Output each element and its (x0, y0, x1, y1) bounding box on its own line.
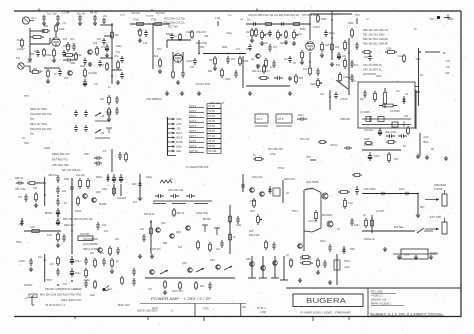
resistor R2 (21, 38, 24, 48)
resistor Rq1 (106, 62, 109, 71)
svg-text:1n5: 1n5 (143, 42, 148, 45)
opto U1 wire row1 (362, 118, 411, 120)
net row 5 val (209, 126, 216, 128)
label b10 (236, 48, 241, 51)
resistor R73 (253, 158, 264, 161)
ground h1 (416, 154, 420, 159)
ground p1 (397, 255, 401, 260)
svg-text:1M: 1M (246, 31, 249, 34)
harness pin 1 label (176, 118, 182, 121)
label R5 (63, 37, 68, 41)
inductor L1 zigzag (160, 180, 172, 183)
wire k stub (198, 40, 200, 54)
svg-text:APPR: 4.5.2005 1: APPR: 4.5.2005 1 (371, 303, 392, 306)
svg-text:TP7: TP7 (430, 18, 435, 21)
svg-text:2k7: 2k7 (100, 64, 105, 67)
resistor Rc1 (285, 30, 288, 39)
label Q25 (161, 222, 166, 225)
label a mid1 (44, 25, 49, 28)
net row 6 underline (189, 132, 204, 134)
wire q1 stub2 (112, 69, 122, 71)
diode D24 (268, 186, 272, 194)
svg-text:1k2: 1k2 (178, 246, 183, 249)
label C2 100n (53, 13, 58, 16)
node j2 (229, 221, 231, 223)
transistor Q32 (150, 270, 155, 275)
wire j rail (139, 174, 141, 196)
resistor Rc0 (255, 28, 258, 37)
label top a1 (62, 12, 71, 15)
svg-text:47n: 47n (18, 196, 23, 199)
capacitor C6 (63, 58, 75, 62)
wire d2 (415, 91, 420, 93)
label q1h (97, 38, 102, 41)
capacitor C29 (274, 76, 283, 80)
net row 6 box (207, 129, 221, 134)
label c5 (256, 64, 261, 67)
svg-text:R101a 1k: R101a 1k (144, 213, 155, 216)
label d1 (414, 28, 417, 31)
capacitor C103 (56, 268, 60, 276)
g mid extra3 (306, 156, 311, 159)
ground n1 (138, 254, 142, 259)
switch box SB2 (276, 114, 292, 123)
ground f1 (165, 91, 169, 96)
capacitor C51 (84, 110, 88, 117)
label i14 (115, 238, 120, 241)
bottom tick 4 (74, 316, 76, 319)
tb sheet line (370, 312, 444, 316)
svg-text:R96a 4k7: R96a 4k7 (64, 224, 75, 227)
label j5 (140, 228, 145, 231)
wire q1 v (242, 56, 244, 88)
svg-text:47k: 47k (114, 54, 119, 58)
label heater (364, 143, 374, 147)
svg-text:820k: 820k (222, 46, 228, 49)
resistor R44 (339, 72, 342, 83)
capacitor C26 (350, 60, 354, 68)
label i9 (33, 187, 38, 190)
label i4 (64, 202, 67, 205)
label d6 (376, 75, 382, 78)
svg-text:1M 22n 470k: 1M 22n 470k (196, 83, 211, 86)
svg-text:FSW R61 10k C52: FSW R61 10k C52 (30, 127, 52, 131)
resistor R20 (159, 58, 162, 68)
svg-text:LED3: LED3 (44, 147, 51, 150)
resistor R119 (57, 256, 60, 266)
resistor R92 (79, 178, 82, 189)
label m4 (75, 260, 81, 263)
svg-text:R16 100k C14 22n: R16 100k C14 22n (164, 22, 185, 25)
svg-text:2k2: 2k2 (90, 252, 95, 255)
label i7 (99, 203, 107, 206)
svg-text:10k 22k: 10k 22k (76, 174, 85, 177)
svg-text:100k: 100k (186, 31, 192, 34)
svg-text:100R: 100R (364, 138, 370, 141)
wire q1 stub1 (104, 35, 112, 37)
bottom tick 5 (348, 316, 350, 320)
svg-text:K1: K1 (405, 92, 409, 96)
label B+ (443, 52, 447, 55)
resistor Rh2 (364, 142, 373, 145)
capacitor C85 (56, 208, 60, 216)
ground at C3 (78, 21, 82, 26)
jack J2 speaker (442, 190, 447, 206)
wire v2 grid (172, 52, 174, 70)
svg-text:TP AT 4: TP AT 4 (257, 307, 266, 310)
svg-text:C55 100n C56: C55 100n C56 (52, 163, 69, 167)
svg-text:100n 100n: 100n 100n (385, 131, 397, 134)
resistor R4 plate (55, 24, 58, 33)
svg-text:100u: 100u (75, 272, 81, 275)
label R21 (209, 58, 213, 62)
ground at C2 (56, 21, 60, 26)
svg-text:470u: 470u (374, 155, 380, 158)
wire o extra1 (283, 256, 285, 280)
capacitor C4 (93, 15, 97, 21)
label a8 (108, 86, 111, 89)
capacitor C22 (268, 44, 272, 52)
svg-text:C16a: C16a (226, 32, 232, 35)
title block divider (367, 288, 369, 317)
jack J3 ext speaker (442, 218, 447, 234)
label i12 (16, 241, 22, 244)
svg-text:R9 1M: R9 1M (90, 12, 97, 15)
svg-text:P7 4R: P7 4R (209, 136, 216, 138)
wire stage2 (44, 67, 60, 69)
label j4 (196, 212, 209, 215)
label h5 (364, 138, 370, 141)
label Q34 (210, 259, 215, 262)
svg-text:4k7: 4k7 (284, 58, 289, 61)
label c2 (264, 42, 269, 45)
label b6 (186, 31, 192, 34)
svg-text:C20 22n R30 470k C21 22n R3: C20 22n R30 470k C21 22n R31 470k VR2 1M (248, 14, 299, 17)
svg-text:R105 47k: R105 47k (150, 248, 161, 251)
net row 5 name (189, 125, 197, 128)
g mid text (268, 147, 283, 151)
net row 10 val (209, 151, 217, 153)
net row 7 val (209, 136, 216, 138)
ground Q1 (88, 62, 92, 67)
svg-text:100n 400V: 100n 400V (364, 188, 376, 191)
label q1c (196, 31, 206, 34)
label TP7 (430, 18, 435, 21)
net row 2 val (209, 111, 216, 113)
capacitor C63 (344, 146, 352, 150)
svg-text:22u: 22u (140, 228, 145, 231)
harness pin 3 label (176, 128, 181, 131)
resistor Ri1 (35, 192, 38, 202)
tiny note (24, 95, 29, 98)
svg-text:100u: 100u (102, 188, 108, 191)
resistor R22 (239, 56, 242, 66)
svg-text:470k: 470k (151, 18, 157, 22)
resistor R3 cathode (53, 48, 56, 58)
label i3 (62, 190, 67, 193)
svg-text:SEND R64 470: SEND R64 470 (52, 152, 70, 156)
svg-text:CN2 RIBBON: CN2 RIBBON (146, 97, 162, 101)
label k8 (252, 176, 263, 179)
label C22 (273, 46, 278, 49)
svg-text:LED1 LED2 PILOT: LED1 LED2 PILOT (61, 299, 82, 302)
svg-text:100n: 100n (298, 114, 304, 117)
label b11 (208, 70, 213, 73)
T bar o1 (248, 277, 256, 279)
capacitor Cc1 (268, 30, 272, 37)
resistor Rn1 (195, 281, 198, 290)
svg-text:1M: 1M (298, 33, 301, 36)
svg-text:TO MAIN PCB CN3: TO MAIN PCB CN3 (186, 165, 209, 169)
wire out main (362, 193, 418, 195)
svg-text:8 OHM: 8 OHM (434, 187, 442, 191)
capacitor Cq2 (36, 50, 40, 57)
svg-text:Q30 TIP35: Q30 TIP35 (306, 180, 319, 184)
svg-text:U1 4N35: U1 4N35 (360, 111, 370, 114)
transistor Q20 (83, 194, 88, 199)
wire gnd drop (29, 44, 31, 57)
svg-text:C91 C92 C93: C91 C92 C93 (168, 189, 184, 192)
label Q26 (176, 231, 181, 234)
svg-text:10u: 10u (398, 55, 403, 58)
label k5 (322, 214, 333, 217)
label top a2 (90, 12, 97, 15)
label q1d (200, 46, 205, 49)
label c13 (352, 80, 357, 83)
cell text 3 (203, 308, 209, 311)
top tick 2 (151, 9, 153, 11)
capacitor C3 (78, 15, 82, 21)
svg-text:MAINS: MAINS (430, 251, 438, 255)
capacitor C100 (378, 192, 388, 196)
svg-text:TIP: TIP (30, 133, 34, 136)
net row 9 name (189, 145, 197, 148)
resistor R21 (214, 56, 217, 66)
m text row3 (61, 299, 82, 302)
svg-text:220: 220 (200, 285, 205, 288)
label q1f (30, 53, 35, 56)
label mains (430, 251, 438, 255)
ground p3 (429, 255, 433, 260)
node mid rail (198, 53, 200, 55)
svg-text:TP6: TP6 (355, 14, 360, 17)
node i2 (57, 195, 59, 197)
label C10 (54, 72, 57, 76)
label b3 (137, 30, 142, 33)
capacitor Cj1 (142, 234, 146, 242)
tb line 2 (371, 295, 383, 298)
label a10 (16, 57, 21, 60)
label q1b (116, 51, 121, 54)
net row 8 name (189, 140, 197, 143)
label h4 (364, 129, 374, 132)
right margin note 2 (446, 66, 450, 69)
ground c2 (284, 40, 288, 45)
resistor R11 (117, 60, 120, 70)
svg-text:+15V: +15V (176, 123, 182, 126)
transistor Q27 (186, 226, 191, 231)
label R36 (335, 46, 340, 49)
svg-text:1k8: 1k8 (249, 230, 254, 233)
label o5 (286, 254, 289, 257)
svg-text:22n: 22n (63, 283, 68, 286)
node pa v2 j (57, 215, 59, 217)
svg-text:R67 22k C58 47n: R67 22k C58 47n (62, 169, 82, 172)
top tiny 5 (333, 14, 339, 16)
ground p2 (414, 255, 418, 260)
capacitor C82 (56, 175, 60, 183)
node i1 (44, 182, 46, 184)
label n2 (148, 288, 153, 291)
ground c4 (330, 62, 334, 67)
svg-text:BUGERA: BUGERA (306, 298, 346, 305)
resistor R91 (27, 182, 37, 185)
label Q20 (96, 191, 101, 194)
svg-text:R60a 4k7 C50a: R60a 4k7 C50a (30, 108, 48, 111)
capacitor C106 (84, 257, 88, 265)
resistor R122 (111, 258, 114, 268)
label K1 (405, 92, 409, 96)
resistor R115 (265, 240, 268, 250)
wire eff v (111, 149, 113, 172)
title cell m4 (243, 306, 247, 309)
resistor R34 (301, 50, 304, 60)
svg-text:Q10 BC547: Q10 BC547 (363, 72, 377, 76)
ground R20 (158, 69, 162, 74)
svg-text:82k: 82k (154, 54, 159, 58)
svg-text:+12V: +12V (423, 136, 429, 139)
svg-text:C63 1n: C63 1n (330, 144, 339, 147)
label l5 (364, 238, 375, 241)
capacitor Ca2 (62, 50, 66, 57)
wire l v1 (371, 215, 373, 233)
ground VR3 (292, 41, 296, 46)
label Q3 (251, 58, 255, 61)
svg-text:OUT 5: OUT 5 (189, 125, 197, 128)
label c4 (246, 48, 251, 51)
label i16 (45, 212, 53, 215)
label VR1 (266, 33, 272, 36)
bottom tick 3 (312, 316, 314, 321)
svg-text:10n: 10n (53, 13, 58, 16)
svg-text:-15V: -15V (176, 128, 181, 131)
node l1 (417, 193, 419, 195)
label C8 (101, 45, 106, 49)
svg-text:P. AMP 6260 / 6262 · PREAMP: P. AMP 6260 / 6262 · PREAMP (301, 311, 351, 315)
label m8 (116, 260, 119, 263)
switch SW2 (95, 130, 104, 134)
wire a1 (49, 38, 51, 44)
label R2 1M (17, 39, 20, 42)
ground c5 (256, 64, 260, 69)
label h3 (404, 115, 409, 118)
node g rail (329, 96, 331, 98)
svg-text:C82 10n: C82 10n (48, 174, 58, 177)
svg-text:R17 1k5: R17 1k5 (168, 25, 178, 29)
svg-text:47u: 47u (101, 45, 106, 49)
tb line 3 (371, 299, 387, 302)
svg-text:B 100: B 100 (306, 188, 313, 191)
tube V1A (52, 38, 61, 47)
T node 1 (202, 225, 208, 232)
wire psu lead 2 (120, 184, 122, 196)
m tiny left (25, 296, 29, 300)
svg-text:10k: 10k (93, 41, 98, 45)
mark d corner (448, 14, 453, 19)
wire grid (30, 43, 50, 45)
label j10 (236, 224, 242, 227)
svg-text:22p: 22p (103, 15, 108, 18)
top centre tick (38, 9, 40, 12)
label i5 (96, 176, 102, 179)
label m11 (63, 283, 68, 286)
label net A (63, 45, 67, 48)
top tick 3 (256, 9, 258, 12)
svg-text:BD911: BD911 (45, 212, 53, 215)
svg-text:P6 4R: P6 4R (209, 131, 216, 133)
label above harness (146, 97, 162, 101)
svg-text:1M: 1M (17, 39, 20, 42)
svg-text:1μn: 1μn (47, 13, 52, 16)
resistor R128 box (300, 262, 313, 265)
switch SW3 impedance (417, 228, 433, 233)
label j right (233, 236, 236, 239)
send return (52, 152, 70, 156)
potentiometer VR4 (317, 78, 322, 88)
label l6 (376, 210, 384, 213)
svg-text:2700: 2700 (203, 308, 209, 311)
svg-text:L2 2uH: L2 2uH (376, 210, 384, 213)
harness pin 2 label (176, 123, 182, 126)
label k text (249, 234, 260, 237)
wire plate (55, 33, 57, 37)
svg-text:100k: 100k (321, 18, 327, 21)
label VR7 (250, 210, 255, 213)
resistor Rk2 (315, 210, 318, 221)
label h7 (374, 155, 380, 158)
capacitor C52 (74, 125, 78, 132)
svg-text:EXT. SPK: EXT. SPK (430, 215, 441, 219)
svg-text:IN 1: IN 1 (31, 16, 36, 20)
svg-text:TRS: TRS (24, 142, 29, 145)
label c10 (325, 44, 330, 47)
net row 6 val (209, 131, 216, 133)
svg-text:CH B: CH B (278, 118, 284, 121)
capacitor C71 (398, 134, 407, 138)
svg-text:BD139: BD139 (203, 218, 211, 221)
label R20 (154, 54, 159, 58)
capacitor C24 (337, 52, 341, 60)
label bias (176, 212, 185, 215)
transistor Q28 (250, 188, 255, 193)
ground b1 (138, 38, 142, 43)
label i11 (47, 234, 52, 237)
svg-text:BIAS -52V: BIAS -52V (118, 304, 130, 307)
label b4 (143, 42, 148, 45)
svg-text:CH A: CH A (257, 118, 263, 121)
svg-text:P5 4R: P5 4R (209, 126, 216, 128)
resistor R100 (109, 246, 112, 256)
net row 3 box (207, 114, 221, 119)
svg-text:470p: 470p (270, 153, 276, 156)
capacitor C94 (220, 240, 224, 248)
ground o1 (316, 270, 320, 275)
label m6 (90, 252, 95, 255)
switch SW1 contact (106, 112, 112, 117)
svg-text:1M: 1M (247, 19, 250, 22)
svg-text:V5 V6 6L6GC × 2: V5 V6 6L6GC × 2 (45, 303, 66, 307)
wire harness bus foot (168, 155, 177, 157)
